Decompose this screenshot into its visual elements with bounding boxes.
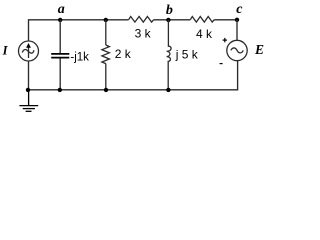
capacitor -j1k leads [59,20,61,90]
node above 2k dot [104,18,108,22]
ground [19,90,38,112]
svg-text:a: a [58,2,65,17]
svg-text:-j1k: -j1k [70,51,89,63]
junction dot: capacitor bottom [58,88,62,92]
junction dot: inductor bottom [166,88,170,92]
node b dot [166,18,170,22]
wire top right: 4k to node c [214,19,237,21]
node c dot [235,18,239,22]
inductor j5k [167,20,172,90]
svg-text:2 k: 2 k [115,47,132,61]
svg-text:E: E [254,42,264,57]
capacitor -j1k plates [51,54,69,58]
svg-text:c: c [236,2,243,17]
minus sign [220,63,223,65]
resistor 4k [190,17,214,23]
resistor 2k [102,20,110,90]
svg-text:3 k: 3 k [135,27,152,41]
voltage source E leads [236,20,238,41]
svg-text:j 5 k: j 5 k [175,47,199,61]
current source I [19,41,39,61]
wire current source leads [28,61,30,90]
voltage source E [227,40,247,60]
junction dot: 2k resistor bottom [104,88,108,92]
svg-text:b: b [166,3,173,18]
wire bottom rail [28,61,238,90]
svg-text:I: I [2,44,9,58]
plus sign [223,38,227,42]
node a dot [58,18,62,22]
svg-text:4 k: 4 k [196,27,213,41]
resistor 3k [129,17,154,23]
junction dot: ground node at current source [26,88,30,92]
wire top middle: 3k to 4k [154,19,191,21]
wire top left: corner at (28.5,20) to 3k resistor [29,20,129,41]
